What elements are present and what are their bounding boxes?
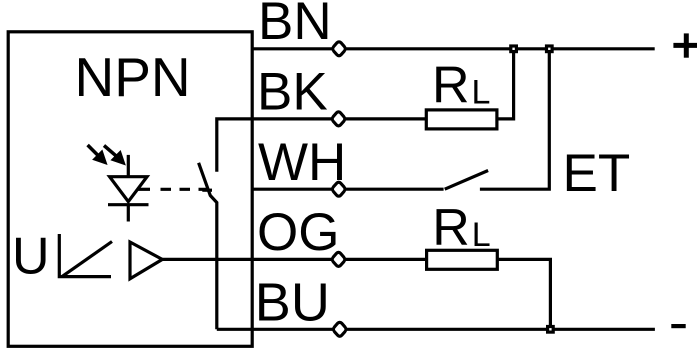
svg-text:BN: BN (258, 0, 332, 51)
svg-text:R: R (432, 57, 470, 115)
svg-text:BU: BU (255, 273, 330, 333)
connector diamond WH (331, 181, 346, 198)
wire BK to rail (497, 49, 514, 119)
svg-text:ET: ET (563, 144, 631, 203)
connector diamond BU (332, 321, 347, 338)
wire WH (252, 188, 444, 191)
junction node ET/plus (545, 44, 554, 53)
output transistor collector stub (217, 119, 252, 172)
photodiode anode lead (127, 155, 130, 177)
wire BU (217, 328, 655, 331)
sensor enclosure box (8, 32, 252, 347)
photodiode triangle (110, 177, 147, 202)
coupling dashed line (161, 188, 208, 191)
wire BN (252, 47, 655, 50)
svg-text:OG: OG (257, 203, 339, 262)
switch ET blade (445, 171, 488, 190)
junction node BU/minus (546, 325, 555, 334)
wire OG to minus rail (497, 259, 550, 329)
svg-text:BK: BK (257, 63, 328, 122)
label RL2 (432, 199, 490, 257)
connector diamond BN (332, 40, 347, 57)
resistor RL1 (426, 110, 497, 129)
characteristic ramp (62, 242, 112, 277)
svg-text:WH: WH (258, 133, 346, 192)
output switch blade (199, 163, 217, 329)
svg-text:U: U (12, 228, 50, 286)
output switch actuator tick (202, 189, 212, 192)
junction node BK/plus (509, 44, 518, 53)
minus terminal (671, 324, 685, 328)
svg-text:L: L (472, 74, 491, 112)
wire BK (252, 117, 426, 120)
light arrow 2 (104, 146, 125, 165)
photodiode cathode lead (127, 205, 130, 222)
switch ET lead to rail (480, 49, 549, 189)
wire OG from amplifier (162, 258, 426, 261)
characteristic axes (59, 234, 111, 277)
light arrow 1 (88, 145, 107, 164)
plus terminal (673, 33, 697, 57)
amplifier triangle (130, 242, 162, 279)
connector diamond BK (331, 111, 346, 128)
connector diamond OG (331, 251, 346, 268)
photodiode output tick (138, 188, 150, 191)
svg-text:R: R (432, 199, 470, 257)
photodiode cathode bar (108, 203, 149, 206)
resistor RL2 (427, 250, 498, 269)
svg-text:NPN: NPN (75, 46, 191, 108)
svg-text:L: L (472, 216, 491, 254)
label RL1 (432, 57, 490, 115)
